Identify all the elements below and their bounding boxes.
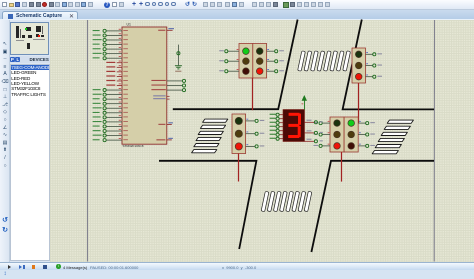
U2 right pins — [305, 120, 323, 143]
TL1 left column lamps (green lit) — [243, 48, 250, 75]
TL4 right terminals — [358, 121, 375, 148]
svg-text:U1: U1 — [127, 23, 131, 27]
overview minimap — [10, 22, 49, 55]
traffic light TL4 (right-middle double unit) — [330, 117, 358, 152]
status bar — [0, 262, 474, 270]
crosswalk west (6 stripes) — [192, 119, 228, 153]
road: north-east edge + east road top line — [343, 20, 434, 110]
svg-text:STM32F103C8: STM32F103C8 — [123, 144, 144, 148]
crosswalk south (8 stripes) — [261, 191, 312, 211]
traffic light TL1 (top-left double unit) — [239, 44, 267, 79]
sheet border right edge — [433, 20, 435, 262]
TL1 left terminals — [219, 49, 239, 73]
7-segment display U2 (showing 3) — [283, 110, 305, 142]
U1 left pins PA/PB with input terminals — [93, 29, 128, 142]
U1 right pin BOOT0 — [156, 138, 173, 141]
U2 segments digit 3 — [288, 113, 301, 138]
traffic light TL2 (top-right single unit) — [352, 48, 366, 83]
U2 left pins with terminals — [270, 113, 283, 140]
left tool column — [0, 20, 10, 262]
TL4 left column lamps (red lit bottom) — [334, 120, 341, 149]
power terminal arrow above U2 — [302, 95, 308, 110]
U1 right pin VBAT — [158, 122, 173, 125]
microcontroller U1 STM32F103C8 — [122, 27, 167, 144]
TL2 right terminals — [366, 52, 383, 78]
road: east road bottom line + south-east edge — [311, 161, 434, 252]
U1 right pins OSC32 labels — [153, 95, 169, 99]
TL1 right column lamps (red lit) — [256, 48, 263, 75]
TL2 lamps (red lit) — [355, 51, 362, 80]
road: west road bottom line + south-west edge — [159, 161, 256, 249]
TL3 right terminals — [246, 119, 265, 148]
U1 right pins PC14/PC15 with terminals — [151, 79, 185, 91]
wire from TL4 down — [341, 152, 343, 182]
crosswalk north (8 stripes) — [298, 51, 351, 71]
TL4 right column lamps (green lit top) — [348, 120, 355, 149]
left panel — [10, 20, 50, 262]
wire from TL3 down — [238, 154, 240, 182]
ground symbol near U1 — [175, 45, 182, 72]
wire from TL2 down across road to TL4 pin — [358, 83, 360, 123]
U1 right pin NRST — [158, 28, 174, 31]
schematic canvas grid — [50, 20, 474, 262]
traffic light TL3 (left-middle single unit) — [232, 114, 246, 154]
tab bar — [0, 10, 474, 20]
crosswalk east (6 stripes) — [372, 120, 413, 154]
TL1 right terminals — [267, 49, 284, 73]
road: north-west edge + west road top line — [173, 20, 298, 110]
wire from TL1 down to road — [252, 78, 254, 110]
TL3 lamps (red lit) — [235, 117, 242, 150]
TL4 left terminals — [314, 121, 331, 148]
top toolbar — [0, 0, 474, 10]
sheet border left edge — [87, 20, 89, 262]
